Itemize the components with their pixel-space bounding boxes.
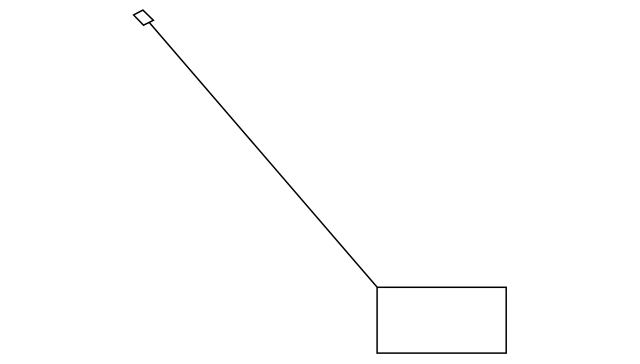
connector line [149,23,377,288]
small rotated rectangle marker [134,10,154,25]
rectangle [377,287,506,353]
